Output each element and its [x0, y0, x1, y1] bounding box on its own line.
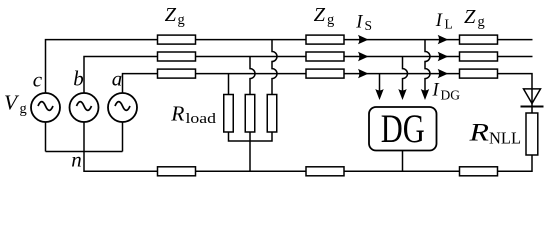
svg-text:S: S	[365, 18, 373, 33]
impedance Z_g box group2 phase c	[306, 35, 344, 44]
impedance Z_g box group3 phase b	[460, 52, 498, 61]
svg-text:I: I	[355, 13, 363, 33]
impedance Z_g box group1 phase b	[158, 52, 196, 61]
arrow DG tap 3 down	[421, 89, 429, 100]
arrow I_L phase c	[438, 35, 449, 44]
impedance box group2 neutral	[306, 167, 344, 176]
wire load to neutral	[249, 132, 251, 171]
voltage source b	[70, 93, 99, 122]
svg-text:g: g	[327, 12, 334, 28]
wire DG tap 1	[379, 74, 381, 93]
impedance Z_g box group2 phase b	[306, 52, 344, 61]
DG unit box	[369, 107, 437, 151]
wire load tap 2 with hop over phase a	[250, 57, 255, 95]
svg-text:g: g	[478, 14, 485, 30]
wire phase a bus (bottom) with corners at source a and NLL branch	[123, 74, 533, 113]
svg-text:I: I	[432, 81, 440, 101]
svg-text:g: g	[20, 101, 27, 117]
wire source c bottom	[45, 122, 47, 152]
impedance Z_g box group3 phase c	[460, 35, 498, 44]
svg-text:a: a	[112, 67, 123, 91]
svg-text:I: I	[435, 11, 443, 31]
wire DG to neutral	[402, 151, 404, 172]
wire source join bar	[46, 151, 123, 153]
impedance Z_g box group3 phase a	[460, 69, 498, 78]
svg-text:R: R	[170, 102, 184, 126]
wire neutral bus with corner at node n and NLL leg	[84, 152, 532, 172]
arrow DG tap 2 down	[398, 89, 406, 100]
svg-text:DG: DG	[441, 88, 461, 103]
svg-text:V: V	[4, 91, 20, 115]
impedance Z_g box group1 phase a	[158, 69, 196, 78]
wire phase c bus (top) with corner at source c	[46, 40, 533, 93]
resistor R_load 1	[224, 95, 234, 133]
svg-text:load: load	[186, 111, 217, 127]
impedance box group3 neutral	[460, 167, 498, 176]
wire DG tap 3 with hops over phases b and a	[425, 40, 430, 93]
diode D1	[521, 89, 544, 107]
svg-text:Z: Z	[165, 4, 177, 26]
svg-text:n: n	[71, 148, 82, 172]
resistor R_load 2	[245, 95, 255, 133]
wire load tap 1	[228, 74, 230, 95]
impedance box group1 neutral	[158, 167, 196, 176]
svg-text:c: c	[33, 68, 43, 92]
wire phase b bus (middle) with corner at source b	[84, 57, 533, 94]
svg-text:DG: DG	[381, 106, 425, 151]
arrow I_S phase c	[358, 35, 369, 44]
wire DG tap 2 with hop over phase a	[403, 57, 408, 93]
svg-text:Z: Z	[314, 4, 326, 26]
svg-text:L: L	[445, 17, 453, 32]
arrow DG tap 1 down	[375, 89, 383, 100]
svg-text:b: b	[73, 67, 84, 91]
impedance Z_g box group1 phase c	[158, 35, 196, 44]
voltage source c	[31, 93, 60, 122]
svg-text:g: g	[178, 12, 185, 28]
arrow I_S phase b	[358, 52, 369, 61]
svg-text:NLL: NLL	[489, 129, 521, 148]
resistor R_load 3	[267, 95, 277, 133]
resistor R_NLL box	[526, 113, 538, 155]
wire load tap 3 with hops over phases b and a	[272, 40, 277, 95]
wire load bottom bar with side legs	[229, 132, 273, 141]
impedance Z_g box group2 phase a	[306, 69, 344, 78]
svg-text:Z: Z	[464, 6, 476, 28]
arrow I_S phase a	[358, 69, 369, 78]
wire source b bottom	[83, 122, 85, 152]
arrow I_L phase a	[438, 69, 449, 78]
voltage source a	[108, 93, 137, 122]
arrow I_L phase b	[438, 52, 449, 61]
wire source a bottom	[122, 122, 124, 152]
svg-text:R: R	[468, 120, 489, 147]
